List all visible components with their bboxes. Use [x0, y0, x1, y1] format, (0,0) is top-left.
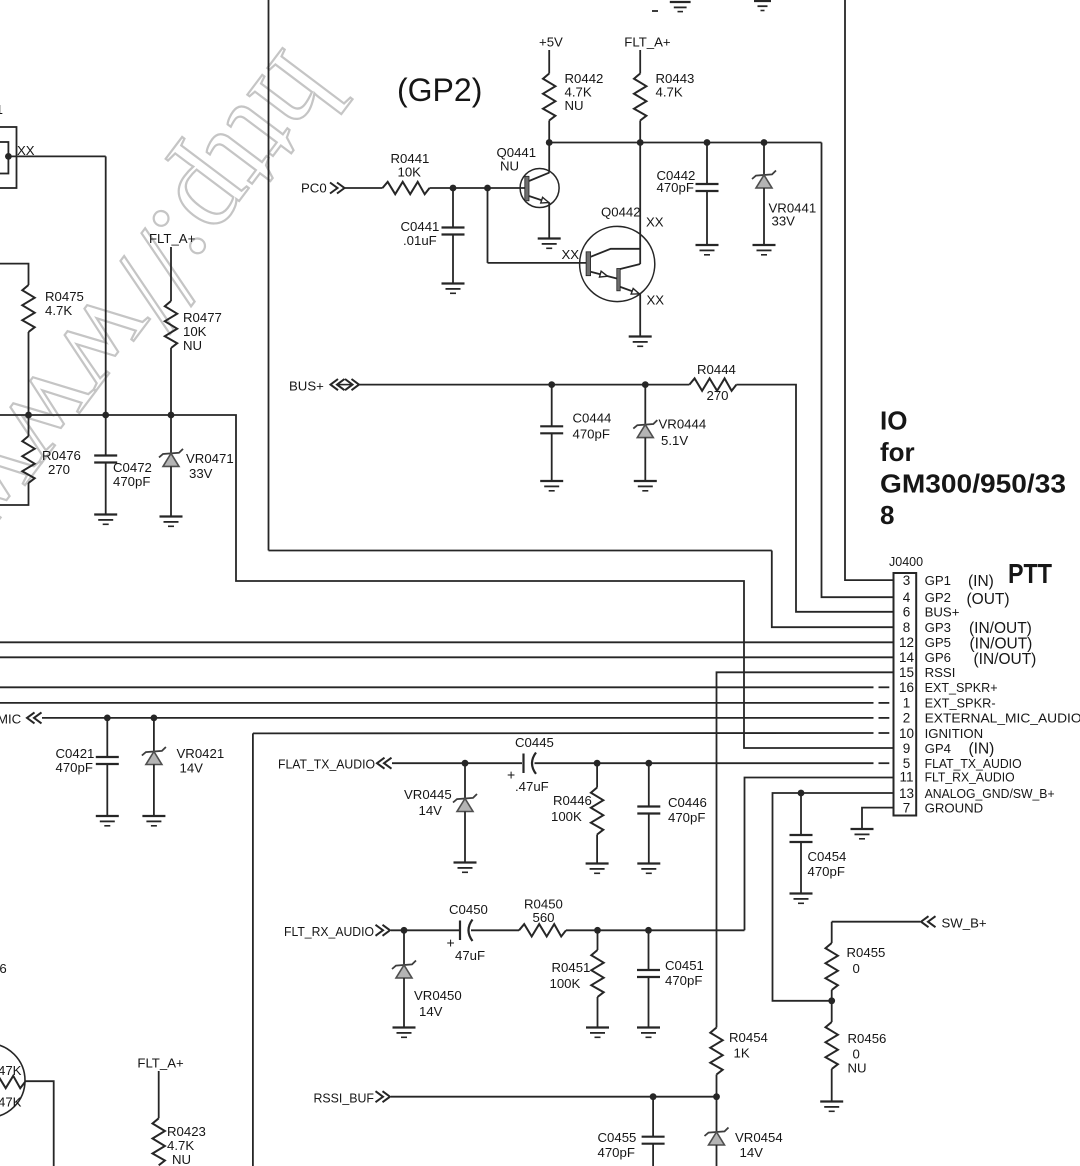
svg-text:EXT_SPKR-: EXT_SPKR- — [925, 696, 996, 711]
svg-text:0: 0 — [853, 1047, 860, 1062]
svg-text:12: 12 — [899, 635, 914, 650]
svg-text:+5V: +5V — [539, 35, 563, 50]
svg-text:(IN/OUT): (IN/OUT) — [969, 620, 1032, 637]
svg-text:SW_B+: SW_B+ — [942, 916, 987, 931]
svg-text:NU: NU — [172, 1152, 191, 1166]
svg-text:R0454: R0454 — [729, 1030, 768, 1045]
svg-text:16: 16 — [899, 680, 914, 695]
svg-text:33V: 33V — [189, 466, 213, 481]
svg-text:4.7K: 4.7K — [656, 85, 683, 100]
svg-text:R0477: R0477 — [183, 310, 222, 325]
svg-text:10: 10 — [899, 726, 914, 741]
svg-text:+: + — [447, 935, 455, 951]
svg-text:IGNITION: IGNITION — [925, 726, 984, 741]
svg-text:C0421: C0421 — [56, 746, 95, 761]
svg-text:NU: NU — [565, 98, 584, 113]
svg-text:GP4: GP4 — [925, 741, 951, 756]
svg-text:GM300/950/33: GM300/950/33 — [880, 469, 1066, 499]
svg-text:FLAT_TX_AUDIO: FLAT_TX_AUDIO — [278, 757, 375, 772]
svg-text:1K: 1K — [734, 1046, 750, 1061]
svg-text:C0472: C0472 — [113, 460, 152, 475]
svg-text:IO: IO — [880, 406, 907, 436]
svg-text:GP6: GP6 — [925, 650, 951, 665]
svg-text:FLT_RX_AUDIO: FLT_RX_AUDIO — [284, 924, 374, 939]
svg-text:(OUT): (OUT) — [967, 591, 1010, 608]
svg-text:BUS+: BUS+ — [925, 605, 960, 620]
svg-text:XX: XX — [646, 215, 664, 230]
svg-text:6: 6 — [903, 605, 911, 620]
svg-text:R0455: R0455 — [847, 945, 886, 960]
svg-text:FLT_RX_AUDIO: FLT_RX_AUDIO — [925, 770, 1015, 785]
svg-text:C0445: C0445 — [515, 735, 554, 750]
svg-text:560: 560 — [533, 910, 555, 925]
svg-text:4.7K: 4.7K — [45, 303, 72, 318]
svg-text:for: for — [880, 437, 915, 467]
svg-text:GP2: GP2 — [925, 590, 951, 605]
svg-text:FLT_A+: FLT_A+ — [149, 231, 196, 246]
svg-text:VR0444: VR0444 — [659, 417, 707, 432]
svg-text:470pF: 470pF — [56, 760, 93, 775]
svg-text:.01uF: .01uF — [403, 233, 437, 248]
svg-text:13: 13 — [899, 786, 914, 801]
svg-text:Q0442: Q0442 — [601, 205, 641, 220]
svg-text:C0455: C0455 — [598, 1130, 637, 1145]
svg-text:11: 11 — [899, 770, 913, 785]
svg-text:470pF: 470pF — [598, 1145, 635, 1160]
svg-text:R0446: R0446 — [553, 793, 592, 808]
svg-text:GP1: GP1 — [925, 573, 951, 588]
svg-text:3: 3 — [903, 573, 911, 588]
svg-text:MIC: MIC — [0, 712, 22, 727]
svg-text:14: 14 — [899, 650, 915, 665]
svg-text:J0400: J0400 — [889, 555, 923, 569]
svg-text:XX: XX — [562, 247, 580, 262]
svg-text:0: 0 — [853, 961, 860, 976]
svg-text:VR0421: VR0421 — [177, 746, 225, 761]
svg-text:PTT: PTT — [1008, 558, 1052, 589]
svg-text:R0423: R0423 — [167, 1124, 206, 1139]
svg-text:15: 15 — [899, 665, 914, 680]
svg-text:14V: 14V — [740, 1145, 764, 1160]
svg-text:C0441: C0441 — [401, 219, 440, 234]
svg-text:(IN): (IN) — [968, 573, 994, 590]
svg-text:470pF: 470pF — [573, 427, 610, 442]
svg-text:NU: NU — [848, 1061, 867, 1076]
svg-text:470pF: 470pF — [657, 180, 694, 195]
svg-text:NU: NU — [500, 159, 519, 174]
svg-text:270: 270 — [48, 462, 70, 477]
svg-text:2: 2 — [903, 711, 911, 726]
svg-text:33V: 33V — [772, 214, 796, 229]
svg-text:EXTERNAL_MIC_AUDIO: EXTERNAL_MIC_AUDIO — [925, 711, 1080, 726]
svg-text:NU: NU — [183, 338, 202, 353]
svg-text:47K: 47K — [0, 1063, 22, 1078]
svg-text:BUS+: BUS+ — [289, 379, 324, 394]
svg-text:EXT_SPKR+: EXT_SPKR+ — [925, 680, 998, 695]
svg-text:270: 270 — [707, 388, 729, 403]
svg-text:10K: 10K — [183, 324, 207, 339]
svg-text:(IN/OUT): (IN/OUT) — [974, 651, 1037, 668]
svg-text:PC0: PC0 — [301, 181, 327, 196]
svg-text:14V: 14V — [419, 803, 443, 818]
svg-text:14V: 14V — [180, 761, 204, 776]
svg-text:8: 8 — [880, 500, 894, 530]
svg-text:C0451: C0451 — [665, 958, 704, 973]
svg-text:(GP2): (GP2) — [397, 72, 482, 108]
svg-text:7: 7 — [903, 800, 911, 815]
svg-text:R0476: R0476 — [42, 448, 81, 463]
svg-text:1: 1 — [903, 696, 911, 711]
svg-text:R0456: R0456 — [848, 1031, 887, 1046]
svg-text:14V: 14V — [419, 1004, 443, 1019]
svg-text:4: 4 — [903, 590, 911, 605]
svg-text:GP3: GP3 — [925, 620, 951, 635]
svg-text:(IN): (IN) — [969, 741, 995, 758]
svg-text:10K: 10K — [398, 165, 422, 180]
svg-text:R0444: R0444 — [697, 362, 736, 377]
svg-text:470pF: 470pF — [665, 973, 702, 988]
svg-text:R0451: R0451 — [552, 960, 591, 975]
svg-text:C0450: C0450 — [449, 902, 488, 917]
svg-text:RSSI: RSSI — [925, 665, 956, 680]
svg-text:GP5: GP5 — [925, 635, 951, 650]
svg-text:(IN/OUT): (IN/OUT) — [970, 636, 1033, 653]
svg-text:FLT_A+: FLT_A+ — [137, 1056, 184, 1071]
svg-text:VR0454: VR0454 — [735, 1130, 783, 1145]
svg-text:+: + — [507, 767, 515, 783]
svg-text:VR0450: VR0450 — [414, 988, 462, 1003]
svg-text:470pF: 470pF — [113, 474, 150, 489]
svg-text:.47uF: .47uF — [515, 779, 549, 794]
svg-text:8: 8 — [903, 620, 911, 635]
svg-text:470pF: 470pF — [808, 864, 845, 879]
svg-text:RSSI_BUF: RSSI_BUF — [314, 1091, 375, 1106]
svg-text:XX: XX — [647, 293, 665, 308]
svg-text:26: 26 — [0, 961, 7, 976]
svg-text:ANALOG_GND/SW_B+: ANALOG_GND/SW_B+ — [925, 786, 1055, 801]
svg-text:47K: 47K — [0, 1095, 22, 1110]
svg-text:R0475: R0475 — [45, 289, 84, 304]
svg-text:470pF: 470pF — [668, 810, 705, 825]
svg-text:C0446: C0446 — [668, 795, 707, 810]
svg-text:VR0445: VR0445 — [404, 787, 452, 802]
svg-text:C0444: C0444 — [573, 411, 612, 426]
svg-text:9: 9 — [903, 741, 911, 756]
svg-text:1: 1 — [0, 103, 3, 117]
svg-text:100K: 100K — [551, 809, 582, 824]
svg-text:VR0471: VR0471 — [186, 451, 234, 466]
svg-text:5.1V: 5.1V — [661, 433, 688, 448]
svg-text:GROUND: GROUND — [925, 800, 984, 815]
svg-text:C0454: C0454 — [808, 849, 847, 864]
svg-text:FLT_A+: FLT_A+ — [624, 35, 671, 50]
svg-text:100K: 100K — [550, 976, 581, 991]
svg-text:4.7K: 4.7K — [167, 1138, 194, 1153]
svg-text:47uF: 47uF — [455, 948, 485, 963]
